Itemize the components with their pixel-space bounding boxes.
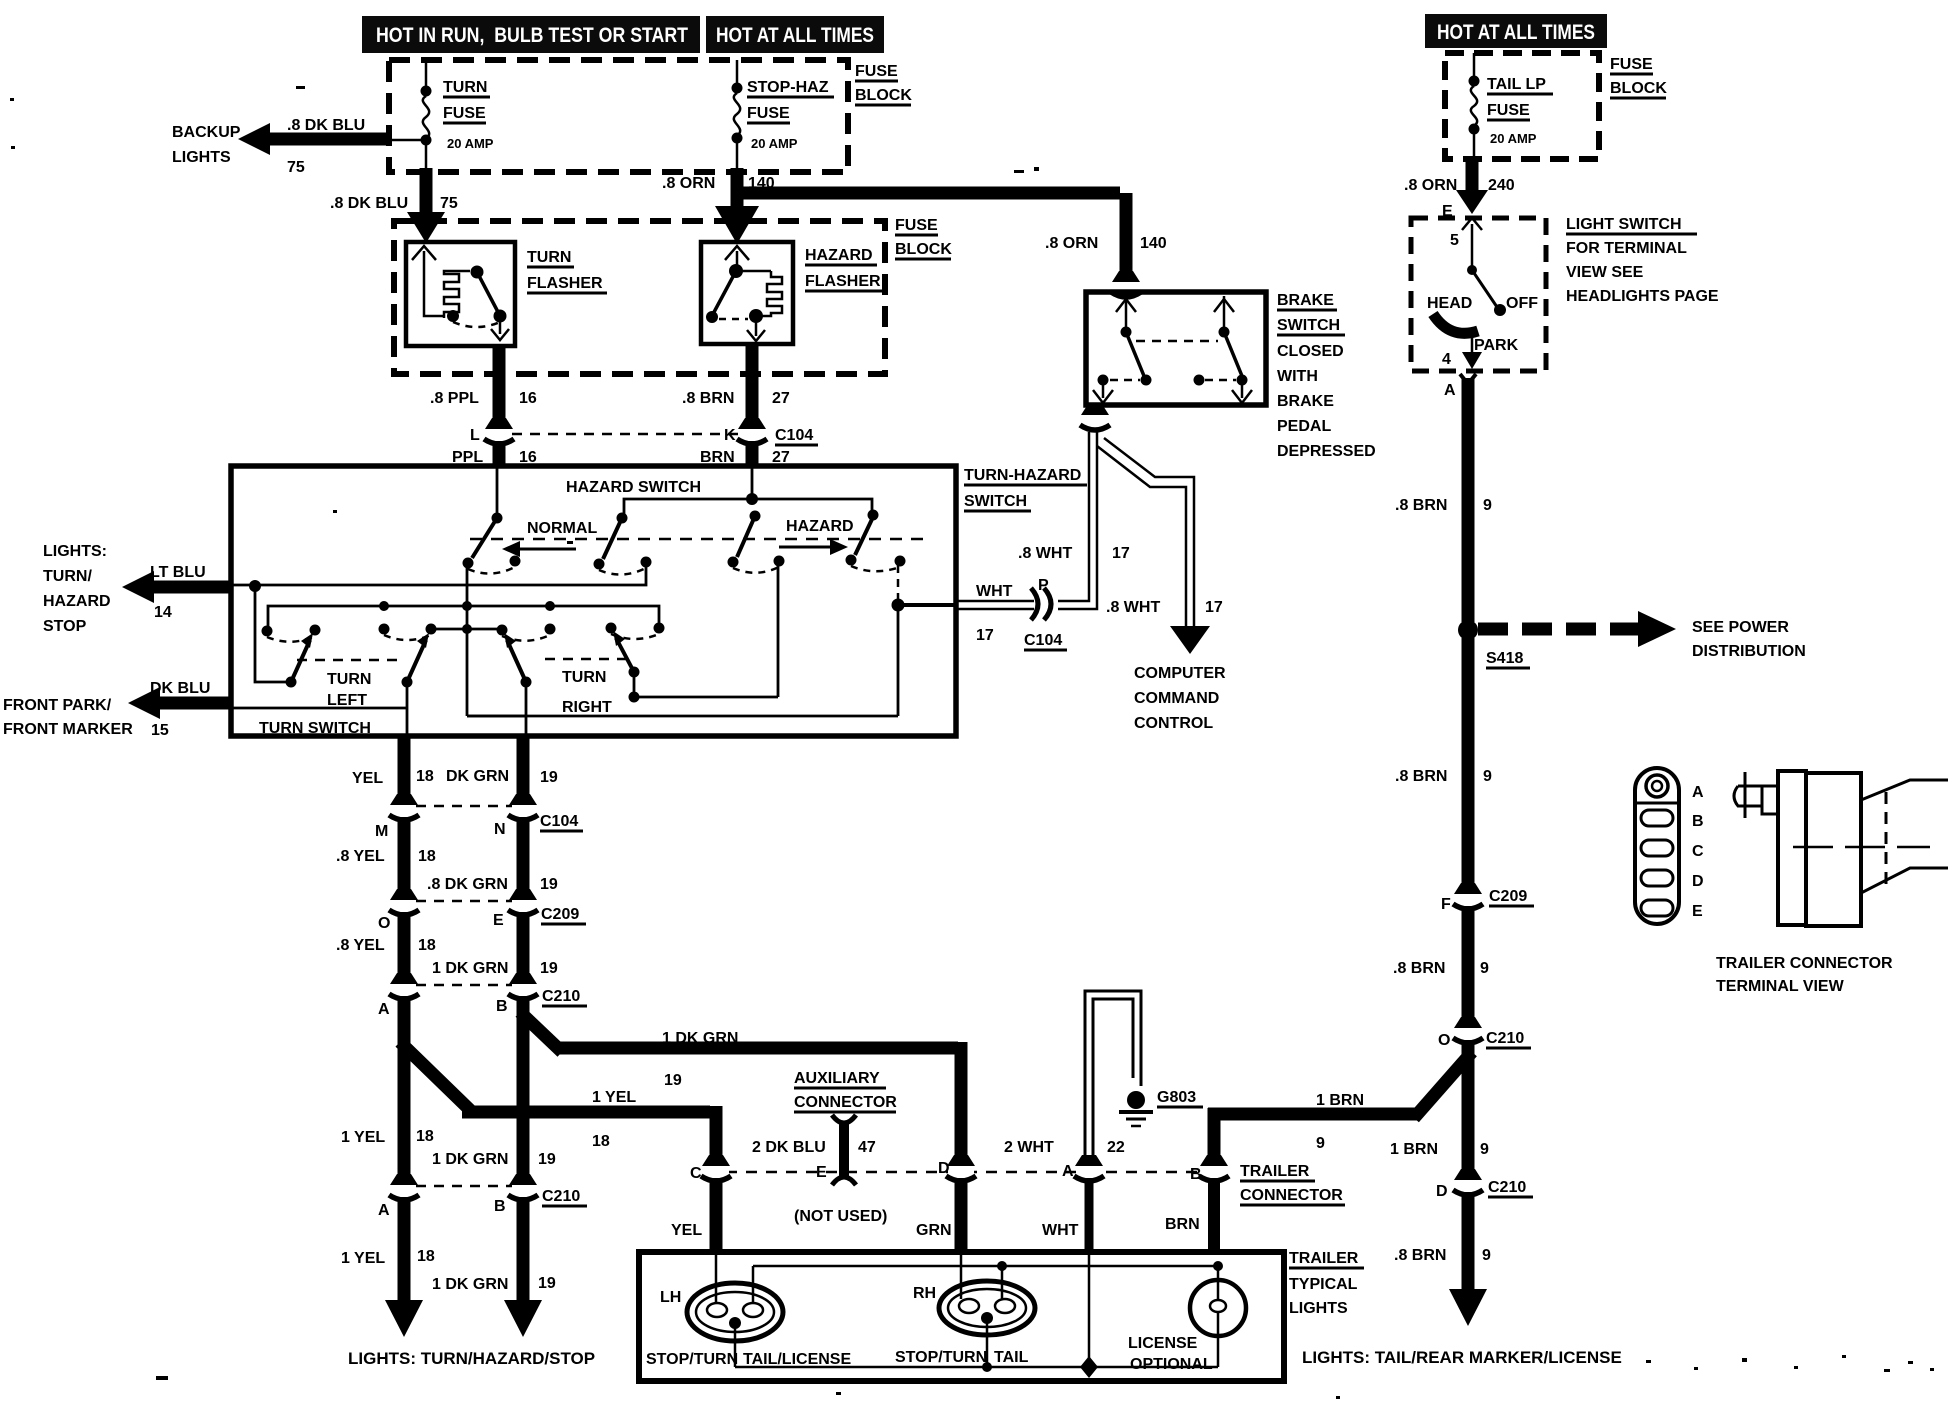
svg-text:TURN: TURN (562, 669, 606, 686)
svg-text:B: B (1692, 813, 1704, 830)
svg-text:17: 17 (1112, 545, 1130, 562)
svg-text:1 DK GRN: 1 DK GRN (432, 1276, 508, 1293)
svg-text:A: A (378, 1202, 390, 1219)
wire .8 BRN 9 to tail lights arrow (1449, 1192, 1487, 1326)
wire fuse to backup branch (392, 139, 421, 142)
label K C104 (724, 427, 818, 445)
svg-text:FOR TERMINAL: FOR TERMINAL (1566, 240, 1687, 257)
label .8 WHT 17 (upper) (1018, 545, 1130, 562)
dashed travel line (470, 538, 930, 541)
connector C210 terminal O (1453, 1017, 1483, 1043)
svg-text:HOT AT ALL TIMES: HOT AT ALL TIMES (1437, 21, 1595, 44)
svg-text:LIGHTS: LIGHTS (1289, 1300, 1348, 1317)
wire 1 BRN 9 link from S418 chain (1208, 1052, 1472, 1162)
svg-text:47: 47 (858, 1139, 876, 1156)
wire arrow SEE POWER DISTRIBUTION (1478, 611, 1676, 647)
wire to turn-left pivot (255, 586, 297, 688)
wire 1 DK GRN 19 (2) (517, 912, 530, 980)
dashed trailer harness connector line (726, 1171, 1200, 1174)
svg-text:CONNECTOR: CONNECTOR (794, 1094, 897, 1111)
svg-text:HAZARD: HAZARD (43, 593, 111, 610)
fuse TURN FUSE 20 AMP (421, 60, 432, 168)
connector C210 terminal A (389, 973, 419, 999)
svg-text:.8 DK BLU: .8 DK BLU (330, 195, 408, 212)
pole turn-right 1 (497, 624, 556, 688)
svg-text:OPTIONAL: OPTIONAL (1130, 1356, 1213, 1373)
svg-text:75: 75 (440, 195, 458, 212)
label 1 DK GRN 19 (branch) (662, 1030, 738, 1089)
svg-text:WHT: WHT (1042, 1222, 1079, 1239)
label BRAKE SWITCH CLOSED WITH BRAKE PEDAL DEPRESSED (1277, 292, 1376, 460)
svg-text:D: D (1692, 873, 1704, 890)
wire center vertical (466, 563, 469, 716)
svg-text:GRN: GRN (916, 1222, 952, 1239)
svg-text:PEDAL: PEDAL (1277, 418, 1331, 435)
wire arrow LIGHTS TURN/HAZARD STOP (122, 571, 231, 603)
svg-text:DEPRESSED: DEPRESSED (1277, 443, 1376, 460)
wire .8 WHT branch to computer (hollow) (1097, 438, 1194, 630)
svg-text:HEADLIGHTS PAGE: HEADLIGHTS PAGE (1566, 288, 1719, 305)
wire 1 YEL to lights arrow (385, 1197, 423, 1337)
wire DK GRN 19 from switch (517, 736, 530, 800)
connector C209 terminal O (389, 889, 419, 915)
svg-text:C209: C209 (541, 906, 579, 923)
svg-text:HEAD: HEAD (1427, 295, 1472, 312)
wire .8 BRN 9 S418 to C209 (1462, 638, 1475, 890)
wire 1 DK GRN down (517, 996, 530, 1180)
svg-text:(NOT USED): (NOT USED) (794, 1208, 887, 1225)
fuse block (right) dashed outline (1445, 53, 1599, 159)
svg-text:B: B (494, 1198, 506, 1215)
wire PPL 16 into switch (493, 441, 506, 468)
wire DK GRN pivot down (525, 682, 528, 736)
svg-text:C104: C104 (1024, 632, 1062, 649)
wire WHT collector (467, 565, 956, 716)
svg-text:AUXILIARY: AUXILIARY (794, 1070, 880, 1087)
svg-text:BRAKE: BRAKE (1277, 393, 1334, 410)
lamp LICENSE optional (1190, 1266, 1246, 1367)
svg-text:.8 WHT: .8 WHT (1018, 545, 1072, 562)
svg-text:A: A (378, 1001, 390, 1018)
wire lamp bus top (753, 1261, 1223, 1271)
svg-text:4: 4 (1442, 351, 1451, 368)
svg-text:DK GRN: DK GRN (446, 768, 509, 785)
svg-text:C104: C104 (775, 427, 813, 444)
svg-text:C210: C210 (1488, 1179, 1526, 1196)
label TURN FLASHER (527, 249, 607, 293)
svg-text:9: 9 (1482, 1247, 1491, 1264)
svg-text:COMPUTER: COMPUTER (1134, 665, 1226, 682)
turn-hazard switch box (231, 466, 956, 736)
svg-text:TYPICAL: TYPICAL (1289, 1276, 1358, 1293)
svg-text:18: 18 (416, 1128, 434, 1145)
fuse block (flasher) dashed outline (394, 221, 885, 374)
wire .8 ORN 140 down to hazard flasher (715, 168, 759, 244)
svg-text:BACKUP: BACKUP (172, 124, 241, 141)
svg-text:E: E (493, 912, 504, 929)
svg-text:STOP/TURN: STOP/TURN (646, 1351, 738, 1368)
wire front park feed (231, 707, 407, 710)
wire .8 BRN 9 light switch to S418 (1460, 374, 1476, 622)
svg-text:1 BRN: 1 BRN (1390, 1141, 1438, 1158)
wire arrow to BACKUP LIGHTS (238, 123, 390, 155)
svg-text:LEFT: LEFT (327, 692, 367, 709)
svg-text:.8 BRN: .8 BRN (1393, 960, 1445, 977)
brake switch box (1086, 292, 1266, 405)
wire 1 BRN 9 junction to C210 D (1462, 1040, 1475, 1176)
svg-text:FUSE: FUSE (895, 217, 938, 234)
svg-text:C: C (1692, 843, 1704, 860)
pole turn-left 1 (262, 625, 321, 683)
label 17 C104 (976, 627, 1067, 650)
svg-text:18: 18 (418, 848, 436, 865)
connector chevron below brake switch (1080, 404, 1110, 430)
svg-text:20 AMP: 20 AMP (751, 136, 798, 151)
svg-text:14: 14 (154, 604, 172, 621)
label FRONT PARK/ FRONT MARKER (3, 697, 133, 738)
wire BRN 27 into switch (746, 441, 759, 468)
label D C210 (1436, 1179, 1533, 1200)
svg-text:L: L (470, 427, 480, 444)
svg-text:TURN-HAZARD: TURN-HAZARD (964, 467, 1081, 484)
dashed connector line C210 (416, 984, 512, 987)
svg-text:SEE POWER: SEE POWER (1692, 619, 1789, 636)
wire DK GRN branch diagonal to D (520, 1012, 961, 1160)
wire WHT into lights box (1085, 1178, 1094, 1252)
svg-text:OFF: OFF (1506, 295, 1538, 312)
dashed line turn right (545, 658, 631, 661)
svg-text:1 YEL: 1 YEL (341, 1250, 385, 1267)
pole contact pair 1 (PPL) (463, 518, 521, 574)
wire 2 WHT 22 ground loop (hollow) (1085, 991, 1141, 1164)
label TRAILER CONNECTOR TERMINAL VIEW (1716, 955, 1893, 995)
svg-text:TRAILER: TRAILER (1289, 1250, 1359, 1267)
svg-text:RIGHT: RIGHT (562, 699, 612, 716)
wire .8 ORN 240 (1456, 159, 1488, 214)
connector C210 terminal B (508, 973, 538, 999)
brake switch dashed links (1110, 341, 1236, 380)
label .8 BRN 9 (lower) (1393, 960, 1489, 977)
svg-text:17: 17 (976, 627, 994, 644)
svg-text:B: B (496, 998, 508, 1015)
svg-text:HAZARD: HAZARD (805, 247, 873, 264)
svg-text:LIGHTS: TAIL/REAR MARKER/LICEN: LIGHTS: TAIL/REAR MARKER/LICENSE (1302, 1348, 1622, 1367)
svg-text:TERMINAL VIEW: TERMINAL VIEW (1716, 978, 1845, 995)
svg-text:19: 19 (664, 1072, 682, 1089)
svg-text:HOT IN RUN, BULB TEST OR STAR: HOT IN RUN, BULB TEST OR START (376, 24, 688, 47)
wire .8 WHT (hollow) brake sw to C104 P (956, 432, 1097, 609)
label TURN-HAZARD SWITCH (964, 467, 1087, 511)
svg-text:O: O (378, 915, 390, 932)
svg-text:240: 240 (1488, 177, 1515, 194)
label TURN RIGHT (562, 669, 612, 716)
pole turn-right 2 (606, 623, 665, 703)
label 2 DK BLU 47 (752, 1139, 876, 1156)
svg-text:.8 PPL: .8 PPL (430, 390, 479, 407)
svg-text:19: 19 (540, 876, 558, 893)
label WHT P (976, 577, 1049, 600)
svg-text:19: 19 (538, 1275, 556, 1292)
wire .8 BRN 27 (746, 344, 759, 424)
lamp LH stop/turn tail/license (687, 1252, 783, 1367)
trailer connector terminal view face (1635, 768, 1679, 924)
label .8 ORN 240 (1404, 177, 1515, 194)
svg-text:TURN: TURN (327, 671, 371, 688)
svg-text:140: 140 (1140, 235, 1167, 252)
svg-text:FLASHER: FLASHER (805, 273, 881, 290)
svg-text:.8 YEL: .8 YEL (336, 937, 385, 954)
svg-text:C210: C210 (542, 988, 580, 1005)
label BRN 27 (700, 449, 790, 466)
svg-text:75: 75 (287, 159, 305, 176)
svg-text:C104: C104 (540, 813, 578, 830)
wire YEL branch diagonal to C (400, 1042, 716, 1160)
svg-text:9: 9 (1480, 1141, 1489, 1158)
label HEAD OFF PARK 4 (1427, 295, 1538, 368)
label M N C104 (375, 813, 583, 840)
node PPL entry (492, 466, 503, 524)
connector C210 terminal A (2) (389, 1174, 419, 1200)
terminal letters A B C D E (1692, 784, 1704, 920)
connector C210 terminal D (1453, 1169, 1483, 1195)
wire hazard pad to pole4 link (634, 561, 778, 697)
lamp RH stop/turn tail (939, 1252, 1035, 1367)
svg-text:M: M (375, 823, 388, 840)
svg-text:17: 17 (1205, 599, 1223, 616)
svg-text:HOT AT ALL TIMES: HOT AT ALL TIMES (716, 24, 874, 47)
svg-text:LT BLU: LT BLU (150, 564, 206, 581)
svg-text:5: 5 (1450, 232, 1459, 249)
connector trailer terminal A (1074, 1155, 1104, 1181)
svg-text:TURN SWITCH: TURN SWITCH (259, 720, 371, 737)
label HAZARD FLASHER (805, 247, 885, 291)
label BACKUP LIGHTS (172, 124, 241, 166)
label 1 DK GRN 19 (4) (432, 1275, 556, 1293)
label 1 DK GRN 19 (2) (432, 960, 558, 977)
fuse block (upper) dashed outline (389, 60, 848, 172)
svg-text:.8 BRN: .8 BRN (1394, 1247, 1446, 1264)
wire GRN to RH lamp (955, 1178, 968, 1252)
svg-text:LIGHTS: LIGHTS (172, 149, 231, 166)
wire .8 BRN 9 C209 to C210 (1462, 906, 1475, 1024)
label LIGHTS: TURN/ HAZARD STOP (43, 543, 111, 635)
svg-text:COMMAND: COMMAND (1134, 690, 1219, 707)
label TURN LEFT (327, 671, 371, 709)
svg-text:1 BRN: 1 BRN (1316, 1092, 1364, 1109)
svg-text:FRONT MARKER: FRONT MARKER (3, 721, 133, 738)
svg-text:2 DK BLU: 2 DK BLU (752, 1139, 826, 1156)
label .8 ORN 140 (at fuse) (662, 175, 775, 192)
svg-text:18: 18 (418, 937, 436, 954)
svg-text:1 YEL: 1 YEL (592, 1089, 636, 1106)
svg-text:BLOCK: BLOCK (1610, 80, 1667, 97)
label A B C210 (2) (378, 1188, 587, 1219)
wire row A to LT BLU output (233, 566, 646, 592)
node BRN entry junction (746, 466, 758, 505)
svg-text:TRAILER: TRAILER (1240, 1163, 1310, 1180)
svg-text:FRONT PARK/: FRONT PARK/ (3, 697, 112, 714)
label COMPUTER COMMAND CONTROL (1134, 665, 1226, 732)
label SEE POWER DISTRIBUTION (1692, 619, 1806, 660)
svg-text:BLOCK: BLOCK (855, 87, 912, 104)
svg-text:9: 9 (1316, 1135, 1325, 1152)
svg-text:CONTROL: CONTROL (1134, 715, 1213, 732)
wire .8 ORN 140 branch to brake switch (737, 193, 1126, 278)
svg-text:20 AMP: 20 AMP (447, 136, 494, 151)
label LIGHT SWITCH FOR TERMINAL VIEW SEE HEADLIGHTS PAGE (1566, 216, 1719, 305)
wire rail B (268, 601, 659, 630)
wire WHT inside box (1080, 1252, 1098, 1378)
connector C104 terminal K (737, 418, 767, 444)
svg-text:TURN: TURN (443, 79, 487, 96)
wire arrow FRONT PARK/MARKER (128, 687, 231, 719)
connector C104 terminal P (inline) (1031, 588, 1051, 620)
label 1 YEL 18 (3) (341, 1128, 434, 1146)
svg-text:BRAKE: BRAKE (1277, 292, 1334, 309)
label .8 DK BLU 75 (flasher feed) (330, 195, 458, 212)
wire YEL 18 from switch (398, 736, 411, 800)
connector trailer terminal B (1199, 1155, 1229, 1181)
svg-text:E: E (1692, 903, 1703, 920)
svg-text:TAIL/LICENSE: TAIL/LICENSE (743, 1351, 851, 1368)
svg-text:HAZARD SWITCH: HAZARD SWITCH (566, 479, 701, 496)
svg-text:.8 BRN: .8 BRN (1395, 768, 1447, 785)
label .8 BRN 9 (mid) (1395, 768, 1492, 785)
feed label HOT AT ALL TIMES (706, 16, 884, 53)
svg-text:1 YEL: 1 YEL (341, 1129, 385, 1146)
svg-text:K: K (724, 427, 736, 444)
fuse block label (right) (1610, 56, 1667, 98)
svg-text:TAIL LP: TAIL LP (1487, 76, 1546, 93)
connector chevron into brake switch (1111, 271, 1141, 297)
label TRAILER CONNECTOR (1240, 1163, 1345, 1205)
connector C210 terminal B (2) (508, 1174, 538, 1200)
svg-text:18: 18 (416, 768, 434, 785)
fuse STOP-HAZ FUSE 20 AMP (732, 60, 743, 168)
svg-text:.8 YEL: .8 YEL (336, 848, 385, 865)
connector trailer terminal C (701, 1155, 731, 1181)
svg-text:VIEW SEE: VIEW SEE (1566, 264, 1644, 281)
label AUXILIARY CONNECTOR (794, 1070, 897, 1112)
svg-text:18: 18 (417, 1248, 435, 1265)
label PPL 16 (452, 449, 537, 466)
wire .8 YEL 18 (398, 817, 411, 896)
wire z-link to DK GRN pivot (467, 715, 526, 718)
label .8 DK GRN 19 (427, 876, 558, 893)
svg-text:CLOSED: CLOSED (1277, 343, 1344, 360)
label 1 DK GRN 19 (3) (432, 1151, 556, 1168)
wire YEL to LH lamp (710, 1178, 723, 1252)
svg-text:.8 ORN: .8 ORN (662, 175, 715, 192)
wire link poles (431, 624, 502, 634)
svg-text:1 DK GRN: 1 DK GRN (432, 1151, 508, 1168)
hazard flasher box (701, 242, 793, 344)
label .8 BRN 27 (682, 390, 790, 407)
svg-text:.8 ORN: .8 ORN (1404, 177, 1457, 194)
svg-text:SWITCH: SWITCH (964, 493, 1027, 510)
svg-text:STOP: STOP (43, 618, 87, 635)
svg-text:.8 BRN: .8 BRN (682, 390, 734, 407)
svg-text:D: D (938, 1160, 950, 1177)
wire .8 PPL 16 (493, 346, 506, 424)
svg-text:P: P (1038, 577, 1049, 594)
label YEL 18 DK GRN 19 (352, 768, 558, 787)
wire YEL pivot down (406, 682, 409, 736)
dashed connector line C104 lower (416, 805, 512, 808)
svg-text:FLASHER: FLASHER (527, 275, 603, 292)
svg-text:19: 19 (540, 769, 558, 786)
wire BRN into lights box (1208, 1178, 1220, 1252)
label TAIL LP FUSE (1487, 76, 1553, 146)
light switch dashed box (1411, 218, 1546, 371)
svg-text:YEL: YEL (671, 1222, 702, 1239)
brake switch pole 1 (1093, 296, 1152, 403)
wire .8 DK GRN 19 (517, 817, 530, 896)
svg-text:FUSE: FUSE (443, 105, 486, 122)
label .8 ORN 140 (brake switch feed) (1045, 235, 1167, 252)
svg-text:.8 ORN: .8 ORN (1045, 235, 1098, 252)
svg-text:A: A (1692, 784, 1704, 801)
svg-text:PARK: PARK (1474, 337, 1519, 354)
pole contact pair 3 (hazard) (728, 511, 785, 573)
label 1 BRN 9 (link) (1316, 1092, 1364, 1152)
label .8 YEL 18 (336, 848, 436, 865)
svg-text:CONNECTOR: CONNECTOR (1240, 1187, 1343, 1204)
light switch internals (1433, 218, 1506, 369)
svg-text:TAIL: TAIL (994, 1349, 1029, 1366)
fuse block label (855, 63, 912, 105)
svg-text:WITH: WITH (1277, 368, 1318, 385)
svg-text:D: D (1436, 1183, 1448, 1200)
svg-text:LICENSE: LICENSE (1128, 1335, 1198, 1352)
svg-text:G803: G803 (1157, 1089, 1196, 1106)
wire 1 YEL 18 down (398, 996, 411, 1180)
svg-text:.8 BRN: .8 BRN (1395, 497, 1447, 514)
svg-text:LIGHT SWITCH: LIGHT SWITCH (1566, 216, 1682, 233)
svg-text:20 AMP: 20 AMP (1490, 131, 1537, 146)
connector C209 terminal F (1453, 883, 1483, 909)
svg-text:18: 18 (592, 1133, 610, 1150)
svg-text:STOP/TURN: STOP/TURN (895, 1349, 987, 1366)
turn flasher box (406, 242, 515, 346)
ground G803 (1119, 1091, 1153, 1126)
wire 1 DK GRN to lights arrow (504, 1197, 542, 1337)
hazard flasher internals (706, 246, 782, 341)
svg-text:O: O (1438, 1032, 1450, 1049)
svg-text:27: 27 (772, 390, 790, 407)
svg-text:16: 16 (519, 390, 537, 407)
svg-text:STOP-HAZ: STOP-HAZ (747, 79, 829, 96)
label A B C210 (378, 988, 587, 1018)
feed label HOT AT ALL TIMES (right) (1425, 14, 1607, 48)
svg-text:HAZARD: HAZARD (786, 518, 854, 535)
svg-text:S418: S418 (1486, 650, 1523, 667)
pole contact pair 2 (normal) (594, 518, 652, 575)
label G803 (1157, 1089, 1203, 1107)
svg-text:A: A (1062, 1163, 1074, 1180)
svg-text:F: F (1441, 896, 1451, 913)
label STOP-HAZ FUSE (747, 79, 834, 151)
pole turn-left 2 (379, 624, 437, 688)
wire junction to normal pole (617, 499, 753, 524)
wire lamp bus bottom (735, 1362, 1218, 1372)
connector C104 terminal M (389, 794, 419, 820)
dashed connector line C104 (512, 433, 740, 436)
connector C104 terminal L (484, 418, 514, 444)
label .8 DK BLU 75 (backup feed) (287, 117, 365, 176)
svg-text:DK BLU: DK BLU (150, 680, 210, 697)
svg-text:FUSE: FUSE (1610, 56, 1653, 73)
